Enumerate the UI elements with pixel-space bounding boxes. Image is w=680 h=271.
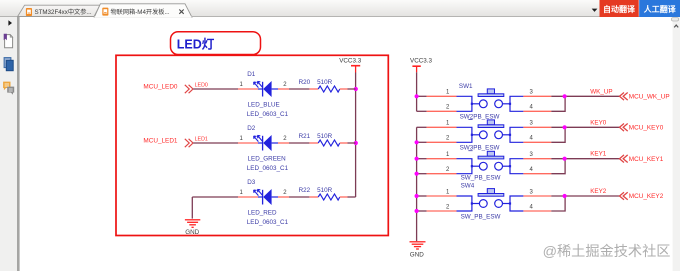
- switch SW1 symbol: [457, 89, 524, 111]
- pin 2 of SW3: [427, 167, 457, 174]
- svg-text:VCC3.3: VCC3.3: [410, 58, 433, 65]
- label LED_BLUE: [248, 102, 280, 109]
- svg-text:LED_0603_C1: LED_0603_C1: [247, 165, 289, 172]
- designator SW4: [461, 182, 475, 189]
- svg-text:510R: 510R: [317, 133, 333, 140]
- net label WK_UP: [590, 88, 612, 95]
- designator D2: [247, 125, 256, 132]
- port MCU_LED1: [143, 137, 193, 147]
- svg-text:MCU_LED0: MCU_LED0: [143, 83, 178, 90]
- pin 1 of SW1: [427, 90, 457, 97]
- wire GND rail SW2-SW4: [416, 127, 418, 241]
- pin 2 of SW1: [427, 105, 457, 112]
- pin 1 of D3: [238, 190, 258, 197]
- pin 3 of SW2: [523, 121, 551, 128]
- resistor R20 510R: [299, 79, 348, 92]
- wire rail to SW4 pin1: [417, 195, 427, 197]
- label LED_0603_C1: [247, 111, 289, 118]
- svg-text:SW3PB_ESW: SW3PB_ESW: [460, 145, 500, 152]
- svg-text:LED1: LED1: [195, 136, 208, 142]
- wire R21 to VCC rail: [348, 142, 356, 144]
- wire from GND to D3: [192, 197, 238, 219]
- wire SW2 pin3 to port: [551, 126, 619, 128]
- wire rail to SW1 pin1: [417, 95, 427, 97]
- tab bar background: [0, 0, 680, 17]
- wire rail to SW4 pin2: [417, 210, 427, 212]
- wire SW4 pin4 up to pin3 net: [551, 196, 565, 211]
- label LED_GREEN: [248, 156, 287, 163]
- junction on rail at SW3 pin 2: [415, 172, 419, 176]
- svg-text:LED_0603_C1: LED_0603_C1: [247, 111, 289, 118]
- svg-text:GND: GND: [185, 229, 199, 236]
- designator SW3 / value SW_PB_ESW overlapped: [460, 145, 500, 152]
- svg-text:R21: R21: [299, 133, 311, 140]
- net label LED1: [195, 136, 208, 142]
- wire SW1 pin4 up to pin3 net: [551, 96, 565, 111]
- wire LED1: [193, 142, 238, 144]
- sidebar comments icon: [3, 82, 14, 95]
- pin 2 of D1: [278, 82, 289, 89]
- wire SW3 pin4 up to pin3 net: [551, 159, 565, 174]
- wire SW3 pin3 to port: [551, 158, 619, 160]
- wire D3 to R3: [289, 196, 309, 198]
- wire LED0: [193, 88, 238, 90]
- wire SW1 pin3 to port: [551, 95, 619, 97]
- svg-text:MCU_KEY1: MCU_KEY1: [629, 156, 664, 163]
- LED D2 symbol: [254, 135, 278, 151]
- junction at SW4 output: [563, 194, 567, 198]
- LED section title box: [171, 32, 261, 55]
- pin 3 of SW4: [523, 189, 551, 196]
- net label LED0: [195, 82, 208, 88]
- svg-text:LED灯: LED灯: [177, 37, 215, 52]
- port MCU_LED0: [143, 83, 193, 93]
- label LED_RED: [248, 210, 277, 217]
- sidebar collapse arrow: [8, 20, 12, 26]
- pin 1 of SW3: [427, 152, 457, 159]
- svg-text:KEY2: KEY2: [590, 188, 607, 195]
- wire rail to SW3 pin1: [417, 158, 427, 160]
- pin 4 of SW3: [523, 167, 551, 174]
- wire D1 to R1: [289, 88, 309, 90]
- junction rail row1: [354, 87, 358, 91]
- junction at SW3 output: [563, 157, 567, 161]
- junction on rail at SW4 pin 1: [415, 194, 419, 198]
- value SW_PB_ESW of SW3: [461, 174, 501, 181]
- junction at SW2 output: [563, 125, 567, 129]
- button 自动翻译: [600, 0, 639, 17]
- left sidebar: [0, 17, 20, 271]
- right scrollbar: [671, 17, 680, 271]
- designator SW2 / value SW_PB_ESW overlapped: [460, 114, 500, 121]
- port MCU_KEY0: [620, 124, 664, 132]
- button 人工翻译: [639, 0, 680, 17]
- section title LED灯: [177, 37, 215, 52]
- svg-text:D1: D1: [247, 71, 256, 78]
- sidebar pages icon: [4, 58, 13, 71]
- svg-text:物联网箱-M4开发板...: 物联网箱-M4开发板...: [111, 8, 170, 16]
- svg-text:MCU_LED1: MCU_LED1: [143, 137, 178, 144]
- junction on rail at SW4 pin 2: [415, 209, 419, 213]
- resistor R22 510R: [299, 187, 348, 200]
- svg-text:LED0: LED0: [195, 82, 208, 88]
- wire SW4 pin3 to port: [551, 195, 619, 197]
- LED D1 symbol: [254, 81, 278, 97]
- LED D3 symbol: [254, 189, 278, 205]
- pin 1 of SW2: [427, 121, 457, 128]
- tab 2 close button: [179, 10, 183, 14]
- label LED_0603_C1: [247, 165, 289, 172]
- value SW_PB_ESW of SW4: [461, 214, 501, 221]
- designator D3: [247, 179, 256, 186]
- svg-text:R20: R20: [299, 79, 311, 86]
- switch SW2 symbol: [457, 120, 524, 142]
- svg-text:自动翻译: 自动翻译: [603, 4, 636, 14]
- net label KEY0: [590, 119, 607, 126]
- pin 3 of SW3: [523, 152, 551, 159]
- port MCU_KEY1: [620, 155, 664, 163]
- svg-text:510R: 510R: [317, 187, 333, 194]
- wire SW2 pin4 up to pin3 net: [551, 127, 565, 142]
- svg-text:KEY1: KEY1: [590, 151, 607, 158]
- designator D1: [247, 71, 256, 78]
- svg-text:STM32F4xx中文参...: STM32F4xx中文参...: [35, 8, 92, 16]
- svg-text:VCC3.3: VCC3.3: [339, 58, 362, 65]
- power flag VCC3.3 (switch section): [410, 58, 433, 73]
- svg-text:D2: D2: [247, 125, 256, 132]
- pin 4 of SW2: [523, 136, 551, 143]
- svg-text:MCU_KEY0: MCU_KEY0: [629, 125, 664, 132]
- junction at SW1 output: [563, 94, 567, 98]
- pin 1 of SW4: [427, 189, 457, 196]
- net label KEY1: [590, 151, 607, 158]
- wire rail to SW2 pin1: [417, 126, 427, 128]
- tab 1 (inactive) STM32F4xx: [18, 5, 100, 16]
- watermark: [543, 244, 671, 260]
- wire VCC down to SW1: [416, 72, 418, 111]
- power flag VCC3.3 (LED section): [339, 58, 362, 73]
- toolbar dropdown arrow: [592, 9, 598, 12]
- label LED_0603_C1: [247, 219, 289, 226]
- pin 2 of D3: [278, 190, 289, 197]
- pin 4 of SW4: [523, 204, 551, 211]
- net label KEY2: [590, 188, 607, 195]
- ground symbol (switch section): [410, 242, 426, 249]
- svg-text:510R: 510R: [317, 79, 333, 86]
- svg-text:LED_GREEN: LED_GREEN: [248, 156, 287, 163]
- svg-text:SW_PB_ESW: SW_PB_ESW: [461, 214, 501, 221]
- wire D2 to R2: [289, 142, 309, 144]
- port MCU_WK_UP: [620, 93, 670, 101]
- svg-text:@稀土掘金技术社区: @稀土掘金技术社区: [543, 244, 671, 260]
- resistor R21 510R: [299, 133, 348, 146]
- GND label (switch section): [410, 251, 424, 258]
- junction rail row2: [354, 141, 358, 145]
- switch SW4 symbol: [457, 189, 524, 211]
- pin 1 of D2: [238, 136, 258, 143]
- svg-text:WK_UP: WK_UP: [590, 88, 612, 95]
- pin 2 of SW4: [427, 204, 457, 211]
- pin 2 of SW2: [427, 136, 457, 143]
- pin 2 of D2: [278, 136, 289, 143]
- pin 1 of D1: [238, 82, 258, 89]
- svg-text:LED_BLUE: LED_BLUE: [248, 102, 280, 109]
- port MCU_KEY2: [620, 192, 664, 200]
- wire rail to SW3 pin2: [417, 173, 427, 175]
- designator SW1: [459, 83, 473, 90]
- ground symbol (LED section): [185, 220, 200, 228]
- wire rail to SW2 pin2: [417, 141, 427, 143]
- wire R20 to VCC rail: [348, 88, 356, 90]
- tab 2 (active): [94, 4, 192, 18]
- svg-text:SW_PB_ESW: SW_PB_ESW: [461, 174, 501, 181]
- switch SW3 symbol: [457, 151, 524, 173]
- LED section red border box: [116, 55, 388, 235]
- wire R22 to VCC rail: [348, 196, 356, 198]
- svg-text:D3: D3: [247, 179, 256, 186]
- svg-text:GND: GND: [410, 251, 424, 258]
- junction on rail at SW2 pin 2: [415, 140, 419, 144]
- junction on rail at SW3 pin 1: [415, 157, 419, 161]
- sidebar bookmarks icon: [4, 34, 13, 48]
- svg-text:SW1: SW1: [459, 83, 473, 90]
- svg-text:MCU_WK_UP: MCU_WK_UP: [629, 94, 670, 101]
- pin 3 of SW1: [523, 90, 551, 97]
- svg-text:R22: R22: [299, 187, 311, 194]
- junction on rail at SW1 pin 1: [415, 94, 419, 98]
- svg-text:LED_RED: LED_RED: [248, 210, 277, 217]
- svg-text:SW4: SW4: [461, 182, 475, 189]
- svg-text:人工翻译: 人工翻译: [644, 4, 677, 14]
- svg-text:MCU_KEY2: MCU_KEY2: [629, 193, 664, 200]
- GND label (LED section): [185, 229, 199, 236]
- svg-text:KEY0: KEY0: [590, 119, 607, 126]
- svg-text:LED_0603_C1: LED_0603_C1: [247, 219, 289, 226]
- pin 4 of SW1: [523, 105, 551, 112]
- wire VCC3.3 rail (LED section): [355, 73, 357, 198]
- wire rail to SW1 pin2: [417, 110, 427, 112]
